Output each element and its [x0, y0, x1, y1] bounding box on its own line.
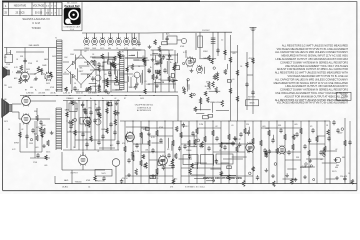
svg-text:35W4 100K: 35W4 100K — [95, 181, 105, 183]
svg-text:V3: V3 — [36, 61, 38, 63]
svg-text:OUTPUT: OUTPUT — [70, 172, 78, 174]
svg-text:AC INTERLOCK: AC INTERLOCK — [137, 109, 152, 112]
svg-text:35C5: 35C5 — [332, 171, 337, 173]
svg-text:12BE6 455KC: 12BE6 455KC — [210, 102, 223, 104]
svg-text:.01: .01 — [232, 79, 235, 81]
svg-text:R7: R7 — [239, 139, 241, 141]
svg-text:C4: C4 — [138, 66, 140, 68]
svg-text:R7: R7 — [25, 90, 27, 92]
svg-text:2.2M .02: 2.2M .02 — [63, 92, 70, 94]
svg-text:25 25C5: 25 25C5 — [15, 11, 25, 14]
svg-text:50C5 1K: 50C5 1K — [76, 92, 84, 94]
svg-text:680: 680 — [30, 87, 33, 89]
svg-text:B+: B+ — [102, 98, 104, 100]
svg-text:.001: .001 — [35, 147, 39, 149]
svg-text:C4: C4 — [240, 66, 242, 68]
svg-text:6AV6: 6AV6 — [64, 179, 68, 182]
svg-text:680: 680 — [342, 157, 345, 159]
svg-text:35W4: 35W4 — [45, 90, 49, 92]
svg-text:SHASTA LAGUNA VII: SHASTA LAGUNA VII — [22, 17, 49, 21]
svg-text:.01: .01 — [231, 125, 234, 127]
svg-text:C4: C4 — [88, 186, 90, 188]
svg-text:SCHEMATIC NO. 3040-1: SCHEMATIC NO. 3040-1 — [185, 185, 205, 188]
svg-text:680: 680 — [108, 48, 111, 50]
svg-text:C4: C4 — [116, 48, 118, 50]
svg-text:50C5: 50C5 — [52, 56, 56, 58]
svg-text:6AV6: 6AV6 — [65, 109, 69, 112]
svg-text:220 1K: 220 1K — [122, 178, 128, 180]
svg-text:50C5: 50C5 — [4, 121, 8, 123]
svg-text:SEL: SEL — [79, 68, 82, 70]
svg-text:.02: .02 — [64, 72, 66, 74]
svg-text:50C5: 50C5 — [231, 178, 235, 180]
svg-text:.02: .02 — [215, 126, 218, 128]
svg-text:T1: T1 — [55, 38, 57, 40]
svg-text:TV3040: TV3040 — [341, 94, 347, 96]
svg-text:680: 680 — [4, 99, 7, 101]
svg-text:DIAL LAMPS: DIAL LAMPS — [29, 44, 40, 47]
svg-text:B+: B+ — [95, 104, 97, 106]
svg-text:C4: C4 — [8, 129, 10, 131]
svg-text:B+: B+ — [90, 98, 92, 100]
svg-text:6AV6: 6AV6 — [44, 58, 48, 61]
svg-text:B+: B+ — [170, 62, 172, 64]
svg-text:.02: .02 — [116, 100, 119, 102]
svg-text:C4: C4 — [92, 54, 94, 56]
svg-text:2.2M 680: 2.2M 680 — [26, 92, 34, 94]
svg-text:50C5: 50C5 — [101, 173, 105, 175]
svg-text:VOLTAGE: VOLTAGE — [33, 5, 45, 8]
svg-text:.005: .005 — [42, 125, 46, 127]
svg-text:PRINTED CIRCUIT BOARD VIEW: PRINTED CIRCUIT BOARD VIEW — [203, 177, 242, 180]
svg-text:220: 220 — [226, 144, 229, 146]
svg-text:B+: B+ — [35, 90, 37, 92]
svg-text:R7: R7 — [124, 98, 126, 100]
svg-text:IF 455KC: IF 455KC — [202, 30, 210, 32]
svg-text:10MF: 10MF — [100, 66, 104, 68]
svg-text:50C5: 50C5 — [46, 83, 50, 85]
svg-text:B+: B+ — [122, 56, 124, 58]
svg-text:C4: C4 — [74, 83, 76, 85]
svg-text:C G M: C G M — [32, 21, 40, 25]
svg-text:.01: .01 — [104, 74, 107, 76]
svg-text:SCH 2: SCH 2 — [341, 98, 346, 100]
svg-text:.01: .01 — [219, 150, 222, 152]
svg-text:33K 35W4: 33K 35W4 — [88, 92, 96, 94]
svg-text:SPKR: SPKR — [14, 143, 20, 145]
svg-text:2.2M: 2.2M — [135, 151, 139, 153]
svg-text:1K AVC: 1K AVC — [62, 185, 69, 188]
svg-text:NEGATIVE: NEGATIVE — [14, 5, 27, 8]
svg-text:.005: .005 — [44, 165, 47, 167]
svg-text:.001: .001 — [124, 82, 127, 84]
svg-text:6BQ5: 6BQ5 — [250, 103, 255, 105]
svg-text:50C5: 50C5 — [44, 78, 48, 80]
svg-text:470K 4.7K: 470K 4.7K — [150, 178, 159, 180]
svg-text:B+: B+ — [150, 67, 152, 69]
svg-text:50C5: 50C5 — [140, 98, 144, 100]
svg-text:.005 33K: .005 33K — [38, 92, 46, 94]
svg-text:RECT: RECT — [79, 71, 84, 73]
svg-text:220: 220 — [246, 124, 249, 126]
svg-text:.01: .01 — [144, 81, 147, 83]
svg-text:.001: .001 — [145, 150, 149, 152]
svg-text:50C5: 50C5 — [231, 143, 235, 145]
svg-text:220: 220 — [4, 85, 7, 87]
svg-text:.047: .047 — [55, 90, 58, 92]
svg-text:VOLTAGES MEASURED WITH VTVM TO: VOLTAGES MEASURED WITH VTVM TO B- LINE A… — [277, 102, 349, 105]
svg-text:ON-OFF SW ON VOL: ON-OFF SW ON VOL — [135, 105, 154, 107]
svg-text:50C5: 50C5 — [100, 48, 104, 50]
svg-text:.001: .001 — [75, 108, 79, 110]
svg-text:12BE6: 12BE6 — [92, 86, 97, 88]
svg-text:1MEG: 1MEG — [129, 87, 135, 89]
svg-text:680: 680 — [335, 167, 338, 169]
svg-text:.02: .02 — [320, 159, 323, 161]
svg-text:50C5: 50C5 — [46, 152, 50, 154]
svg-text:1MEG: 1MEG — [116, 64, 121, 66]
svg-text:.001 B+: .001 B+ — [50, 92, 56, 94]
svg-text:50 195: 50 195 — [35, 11, 43, 14]
svg-text:TV3040: TV3040 — [31, 26, 41, 30]
svg-text:12BE6: 12BE6 — [84, 48, 89, 50]
svg-text:.005: .005 — [294, 124, 298, 126]
svg-text:V3: V3 — [310, 126, 312, 128]
svg-text:C2: C2 — [221, 40, 223, 42]
svg-text:.02: .02 — [84, 51, 87, 53]
svg-text:12BE6: 12BE6 — [66, 98, 71, 100]
svg-text:12BE6: 12BE6 — [186, 150, 191, 152]
svg-text:680: 680 — [336, 165, 339, 167]
svg-text:B+: B+ — [52, 76, 54, 78]
svg-text:TV3040: TV3040 — [74, 182, 82, 184]
svg-text:455KC: 455KC — [183, 126, 189, 128]
svg-text:.005: .005 — [232, 53, 236, 55]
svg-text:680: 680 — [103, 62, 106, 64]
svg-text:50C5: 50C5 — [8, 87, 12, 89]
svg-text:35W4: 35W4 — [154, 64, 158, 66]
svg-text:.001: .001 — [132, 48, 136, 50]
svg-text:50C5: 50C5 — [26, 69, 30, 71]
svg-text:455KC: 455KC — [249, 58, 255, 60]
svg-text:.02: .02 — [335, 149, 337, 151]
svg-text:.02: .02 — [21, 129, 23, 131]
svg-text:220 4.7K: 220 4.7K — [340, 176, 348, 178]
svg-text:35W4: 35W4 — [203, 51, 207, 53]
svg-text:CONTROL R-14: CONTROL R-14 — [137, 107, 151, 109]
svg-text:Packard Bell: Packard Bell — [64, 5, 79, 8]
svg-text:.01: .01 — [97, 151, 99, 153]
svg-text:V3: V3 — [167, 149, 169, 151]
svg-text:35W4: 35W4 — [207, 89, 212, 91]
svg-text:2.2M: 2.2M — [199, 124, 203, 126]
